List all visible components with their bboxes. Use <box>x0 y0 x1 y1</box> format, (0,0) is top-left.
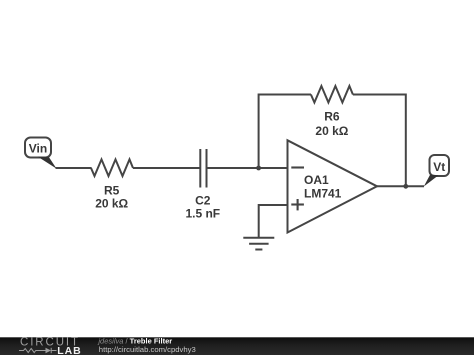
node Vin <box>25 138 57 169</box>
resistor R6 <box>311 86 353 138</box>
node junction at inverting input <box>256 166 261 171</box>
ground <box>243 238 274 250</box>
svg-text:20 kΩ: 20 kΩ <box>95 197 128 211</box>
svg-text:OA1: OA1 <box>304 173 329 187</box>
wire output <box>377 185 424 187</box>
capacitor C2 <box>185 149 220 221</box>
wire R5 to C2 <box>133 167 200 169</box>
wire non-inverting input <box>259 205 289 237</box>
node Vt <box>424 155 449 187</box>
wire Vin to R5 <box>56 167 92 169</box>
op-amp OA1 <box>288 140 378 232</box>
svg-text:LM741: LM741 <box>304 187 342 201</box>
svg-text:Vin: Vin <box>29 142 47 156</box>
svg-text:LAB: LAB <box>57 345 82 355</box>
svg-text:R6: R6 <box>324 110 340 124</box>
CircuitLab logo waveform <box>19 348 57 353</box>
resistor R5 <box>91 159 133 210</box>
footer bar <box>0 337 474 355</box>
svg-text:http://circuitlab.com/cpdvhy3: http://circuitlab.com/cpdvhy3 <box>99 345 196 354</box>
svg-text:C2: C2 <box>195 194 211 208</box>
wire feedback top right + right vertical <box>353 95 406 187</box>
svg-text:20 kΩ: 20 kΩ <box>315 124 348 138</box>
svg-text:Vt: Vt <box>433 160 445 174</box>
node junction at output <box>403 184 408 189</box>
wire feedback left vertical <box>259 95 311 169</box>
svg-text:1.5 nF: 1.5 nF <box>185 207 220 221</box>
wire C2 to inverting input <box>208 167 289 169</box>
svg-text:R5: R5 <box>104 184 120 198</box>
